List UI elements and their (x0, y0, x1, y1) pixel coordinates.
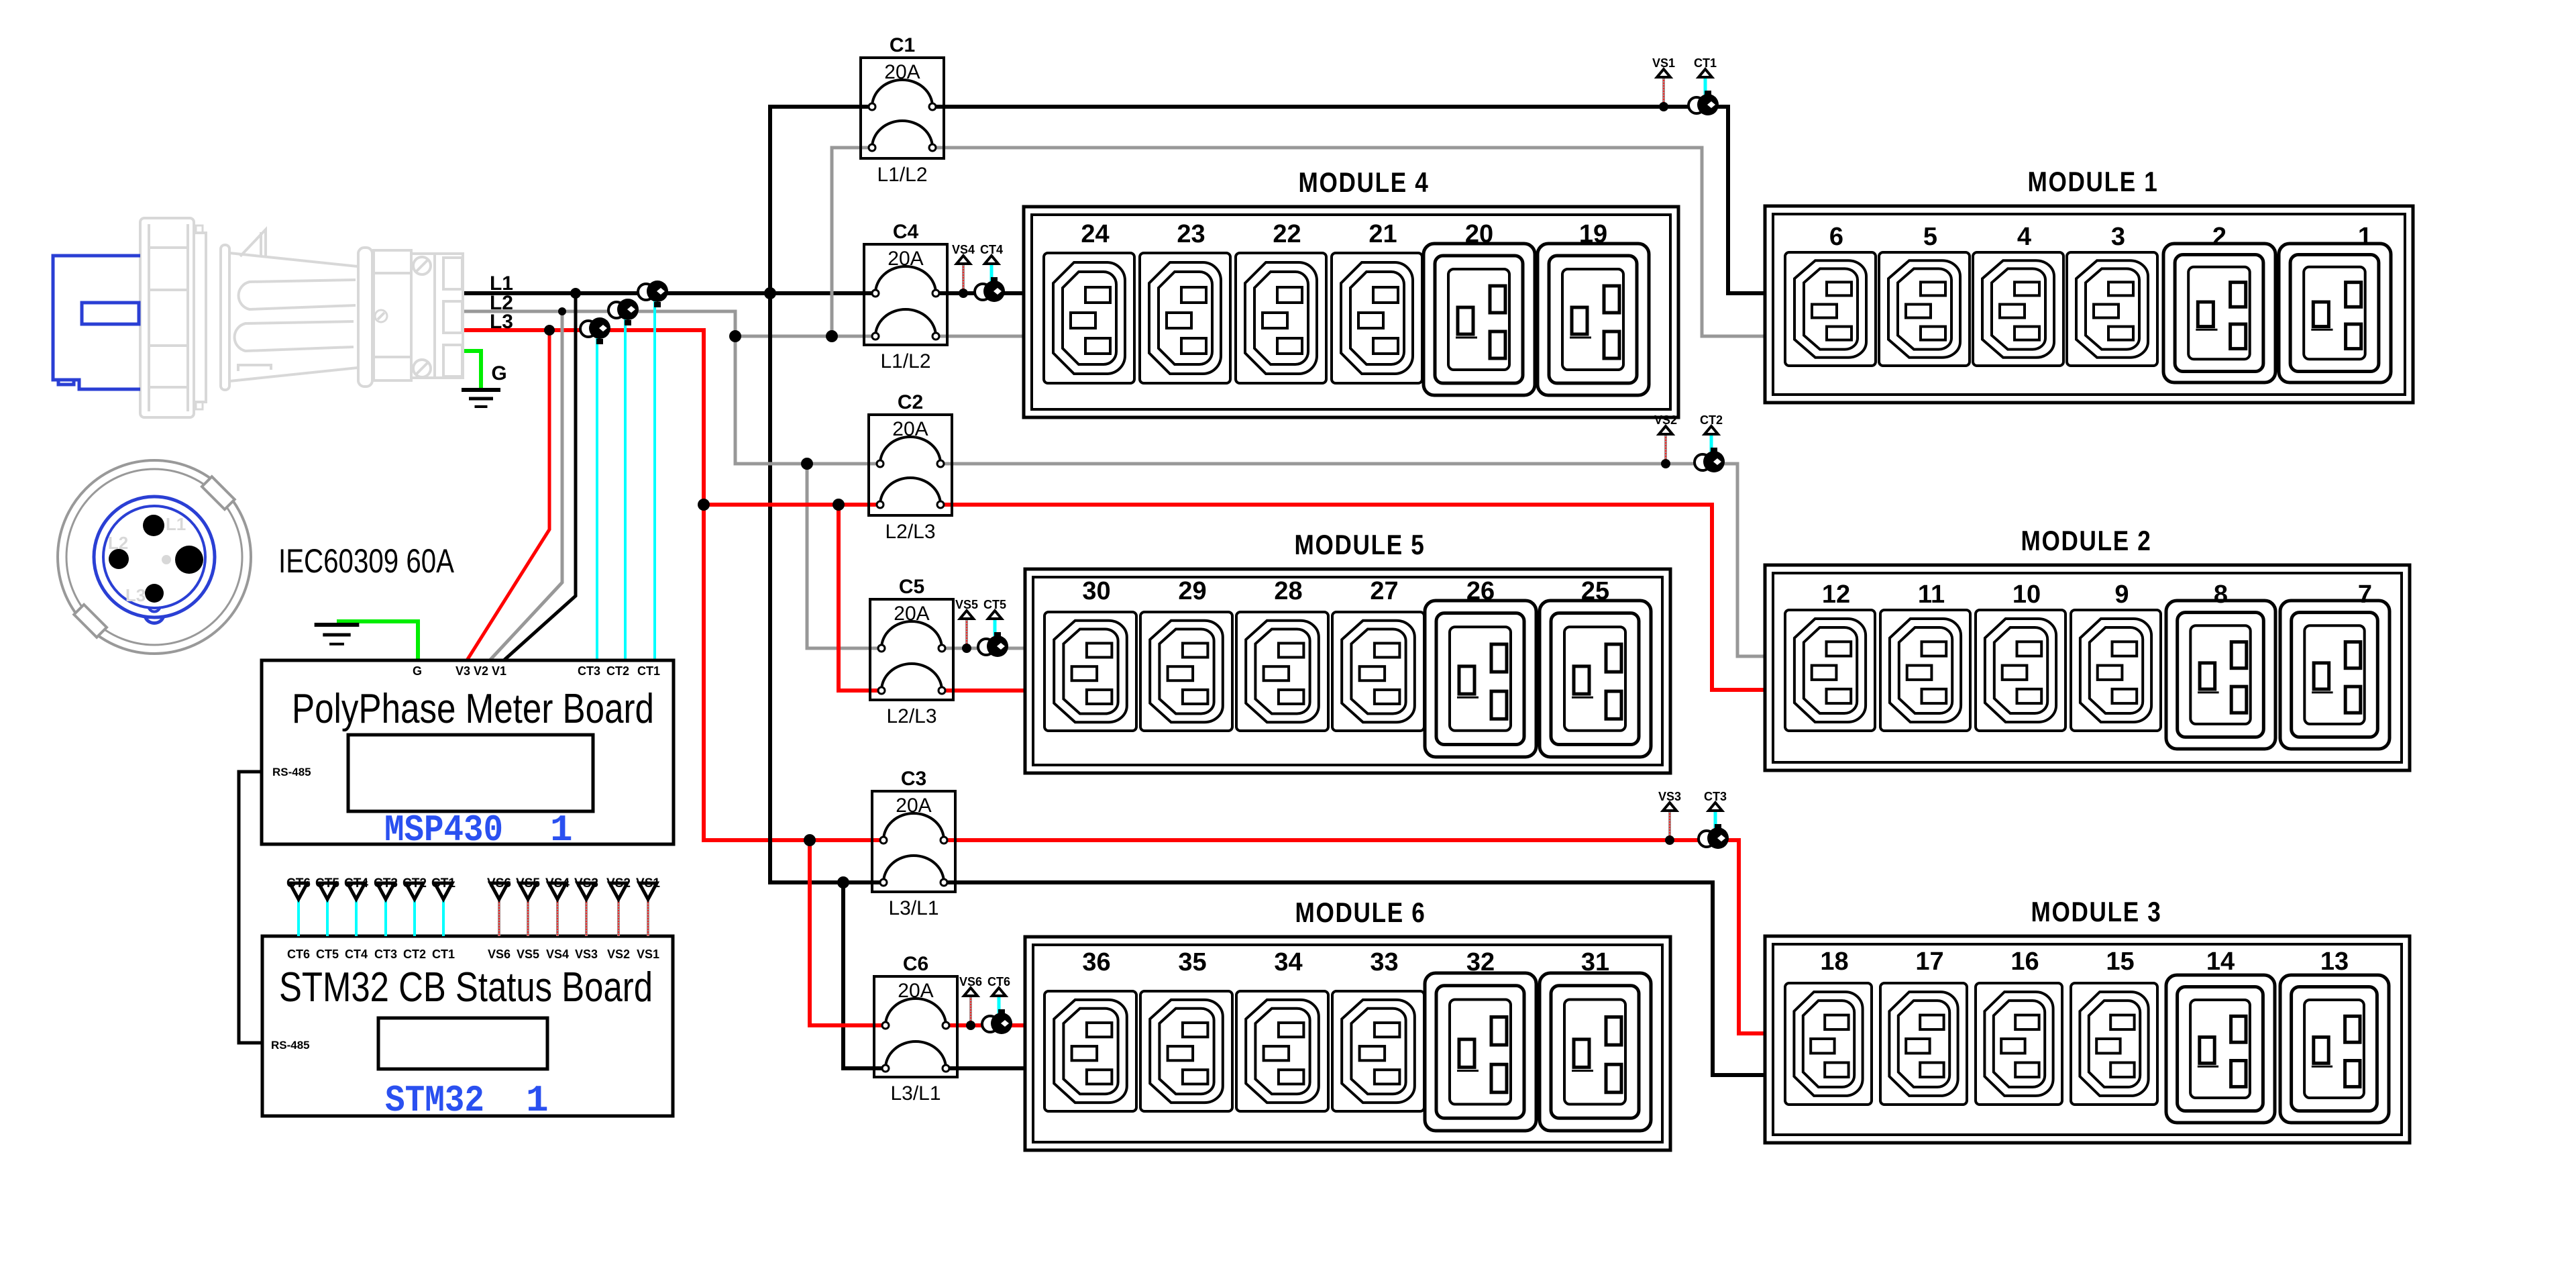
svg-text:C2: C2 (898, 391, 923, 413)
svg-text:CT5: CT5 (315, 876, 339, 890)
svg-text:17: 17 (1915, 948, 1943, 976)
svg-text:L2/L3: L2/L3 (885, 521, 935, 543)
svg-text:C6: C6 (903, 953, 928, 975)
svg-text:V3: V3 (455, 664, 470, 678)
svg-text:30: 30 (1082, 577, 1110, 605)
svg-text:8: 8 (2214, 580, 2228, 609)
svg-text:10: 10 (2012, 580, 2041, 609)
svg-text:VS3: VS3 (574, 876, 598, 890)
svg-text:18: 18 (1820, 948, 1848, 976)
svg-text:VS4: VS4 (545, 876, 570, 890)
svg-text:14: 14 (2206, 948, 2235, 976)
svg-text:CT2: CT2 (403, 948, 426, 961)
svg-text:VS6: VS6 (488, 948, 511, 961)
svg-text:11: 11 (1918, 580, 1945, 609)
svg-text:24: 24 (1081, 220, 1109, 248)
svg-text:MODULE 1: MODULE 1 (2028, 166, 2159, 197)
svg-text:VS6: VS6 (487, 876, 511, 890)
svg-text:L1/L2: L1/L2 (880, 350, 930, 372)
svg-text:STM32 CB Status Board: STM32 CB Status Board (279, 964, 653, 1011)
svg-text:L3: L3 (125, 585, 146, 605)
svg-text:L1/L2: L1/L2 (877, 164, 927, 186)
svg-text:MODULE 6: MODULE 6 (1295, 897, 1426, 928)
svg-text:VS5: VS5 (517, 948, 539, 961)
svg-text:1: 1 (550, 809, 573, 852)
svg-text:CT3: CT3 (578, 664, 600, 678)
svg-text:CT4: CT4 (344, 876, 368, 890)
svg-text:VS1: VS1 (636, 876, 660, 890)
svg-text:VS2: VS2 (607, 948, 630, 961)
svg-text:9: 9 (2114, 580, 2129, 609)
svg-text:MODULE 3: MODULE 3 (2031, 896, 2162, 927)
svg-text:CT5: CT5 (316, 948, 339, 961)
svg-text:CT1: CT1 (637, 664, 660, 678)
svg-text:VS1: VS1 (637, 948, 659, 961)
svg-text:L2: L2 (108, 533, 128, 553)
svg-text:1: 1 (2358, 223, 2372, 251)
svg-text:MODULE 5: MODULE 5 (1295, 529, 1426, 560)
svg-text:MODULE 4: MODULE 4 (1299, 166, 1430, 198)
svg-text:5: 5 (1923, 223, 1937, 251)
svg-text:PolyPhase Meter Board: PolyPhase Meter Board (292, 686, 654, 732)
svg-text:MODULE 2: MODULE 2 (2021, 525, 2152, 556)
svg-text:RS-485: RS-485 (272, 766, 311, 778)
svg-text:V1: V1 (492, 664, 506, 678)
svg-text:1: 1 (526, 1079, 549, 1122)
svg-text:29: 29 (1178, 577, 1206, 605)
svg-text:STM32: STM32 (385, 1079, 484, 1122)
svg-text:C1: C1 (890, 34, 915, 56)
svg-text:VS2: VS2 (606, 876, 631, 890)
svg-text:L2/L3: L2/L3 (886, 705, 936, 727)
svg-text:G: G (413, 664, 422, 678)
svg-text:33: 33 (1370, 948, 1398, 976)
svg-text:L1: L1 (166, 514, 186, 534)
svg-text:22: 22 (1273, 220, 1301, 248)
svg-text:12: 12 (1822, 580, 1850, 609)
svg-text:31: 31 (1581, 948, 1609, 976)
svg-text:VS4: VS4 (546, 948, 569, 961)
svg-text:CT4: CT4 (345, 948, 368, 961)
svg-text:L3/L1: L3/L1 (888, 897, 938, 919)
svg-text:21: 21 (1368, 220, 1397, 248)
svg-text:C5: C5 (899, 576, 924, 598)
svg-text:C4: C4 (893, 221, 919, 243)
svg-text:G: G (491, 362, 506, 385)
svg-text:23: 23 (1177, 220, 1205, 248)
svg-text:27: 27 (1370, 577, 1398, 605)
svg-text:20: 20 (1465, 220, 1493, 248)
svg-text:2: 2 (2212, 223, 2226, 251)
svg-text:36: 36 (1082, 948, 1110, 976)
svg-text:28: 28 (1274, 577, 1302, 605)
svg-text:13: 13 (2320, 948, 2349, 976)
svg-text:VS5: VS5 (516, 876, 540, 890)
svg-text:CT6: CT6 (287, 948, 310, 961)
svg-text:4: 4 (2017, 223, 2031, 251)
svg-text:V2: V2 (474, 664, 488, 678)
svg-text:CT1: CT1 (432, 948, 455, 961)
svg-text:RS-485: RS-485 (271, 1039, 310, 1052)
svg-text:3: 3 (2111, 223, 2125, 251)
svg-text:CT1: CT1 (431, 876, 455, 890)
svg-text:CT2: CT2 (606, 664, 629, 678)
svg-text:L3/L1: L3/L1 (890, 1082, 941, 1105)
svg-text:32: 32 (1466, 948, 1495, 976)
svg-text:7: 7 (2358, 580, 2372, 609)
svg-text:VS3: VS3 (575, 948, 598, 961)
svg-text:15: 15 (2106, 948, 2134, 976)
svg-text:MSP430: MSP430 (384, 809, 503, 852)
svg-text:C3: C3 (901, 768, 926, 790)
svg-text:CT2: CT2 (402, 876, 427, 890)
svg-text:16: 16 (2010, 948, 2039, 976)
svg-text:26: 26 (1466, 577, 1495, 605)
svg-text:6: 6 (1829, 223, 1843, 251)
svg-text:CT3: CT3 (374, 876, 398, 890)
svg-text:IEC60309 60A: IEC60309 60A (278, 542, 455, 580)
svg-text:35: 35 (1178, 948, 1206, 976)
svg-text:CT6: CT6 (286, 876, 311, 890)
svg-text:19: 19 (1579, 220, 1607, 248)
svg-text:L3: L3 (490, 311, 513, 333)
svg-text:CT3: CT3 (374, 948, 397, 961)
svg-text:25: 25 (1581, 577, 1609, 605)
svg-text:34: 34 (1274, 948, 1302, 976)
